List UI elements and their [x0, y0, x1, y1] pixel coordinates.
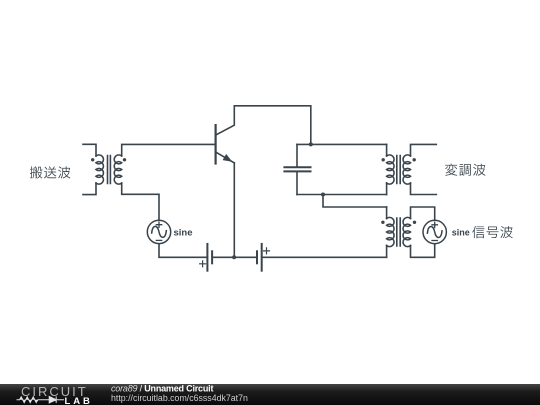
svg-text:LAB: LAB [65, 396, 93, 405]
T1 primary bottom lead [83, 183, 96, 195]
battery V3 plus label [200, 261, 206, 267]
voltage source V2 circle [423, 220, 446, 243]
battery V4 plus label [264, 248, 270, 254]
Q1 emitter diagonal [217, 153, 235, 163]
capacitor C1 top lead [296, 144, 298, 166]
T2 primary bottom lead [386, 183, 388, 195]
capacitor C1 plates [284, 167, 310, 171]
transformer T3 right winding [403, 217, 410, 246]
logo resistor zigzag and diode [17, 396, 65, 403]
wire cap top / T2 primary top [297, 143, 387, 145]
transformer T1 left winding [96, 155, 103, 184]
svg-text:sine: sine [174, 228, 193, 239]
rail battery to T3 [262, 256, 387, 258]
battery V4 long plate [261, 244, 263, 271]
battery V4 short plate [256, 251, 258, 263]
V1 plus sign [156, 222, 161, 227]
transformer T2 right phase dot [413, 158, 416, 161]
transformer T3 core [397, 218, 400, 246]
svg-text:http://circuitlab.com/c6sss4dk: http://circuitlab.com/c6sss4dk7at7n [111, 393, 248, 403]
Q1 emitter arrow [223, 154, 233, 162]
node junction dot top [309, 142, 313, 146]
transformer T1 core [108, 156, 111, 184]
transformer T2 right winding [403, 155, 410, 184]
wire node down to T3 primary top [323, 195, 387, 208]
transformer T2 core [397, 156, 400, 184]
rail between batteries [212, 256, 257, 258]
wire cap bottom / T2 primary bottom [297, 194, 387, 196]
T3 primary top lead [386, 207, 388, 219]
T2 secondary top lead open [411, 144, 437, 156]
V2 plus sign [432, 222, 437, 227]
transformer T3 left phase dot [381, 221, 384, 224]
transformer T1 left phase dot [91, 158, 94, 161]
transformer T2 left phase dot [382, 158, 385, 161]
label carrier wave 搬送波 [30, 166, 70, 178]
T3 secondary bottom to V2 [411, 244, 435, 257]
T3 secondary top to V2 [411, 207, 435, 220]
wire V1 bottom to rail [159, 244, 207, 257]
transformer T1 right phase dot [123, 158, 126, 161]
T2 secondary bottom lead open [411, 183, 437, 195]
Q1 collector diagonal [217, 106, 235, 135]
T3 primary bottom lead to rail [386, 246, 388, 258]
voltage source V1 circle [147, 220, 170, 243]
node emitter-rail junction dot [232, 255, 236, 259]
capacitor C1 bottom lead [296, 172, 298, 194]
label signal wave 信号波 [472, 226, 512, 238]
V1 sine wave [152, 226, 167, 237]
label modulated wave 変調波 [445, 164, 485, 176]
battery V3 short plate [211, 251, 213, 263]
transformer T2 left winding [387, 155, 394, 184]
V1 minus sign [156, 239, 161, 241]
transistor Q1 base bar [215, 125, 217, 163]
T1 primary top lead [83, 144, 96, 156]
wire T1 secondary top to Q1 base [122, 144, 215, 156]
transformer T1 right winding [114, 155, 121, 184]
wire emitter down to rail [233, 163, 235, 257]
battery V3 long plate [206, 244, 208, 271]
transformer T3 left winding [387, 217, 394, 246]
T2 primary top lead [386, 144, 388, 156]
wire T1 secondary bottom to V1 top [122, 183, 159, 220]
wire collector top rail [234, 106, 310, 145]
transformer T3 right phase dot [413, 221, 416, 224]
svg-text:sine: sine [452, 227, 470, 237]
V2 minus sign [432, 240, 437, 242]
node junction dot bottom [321, 193, 325, 197]
V2 sine wave [427, 227, 442, 238]
